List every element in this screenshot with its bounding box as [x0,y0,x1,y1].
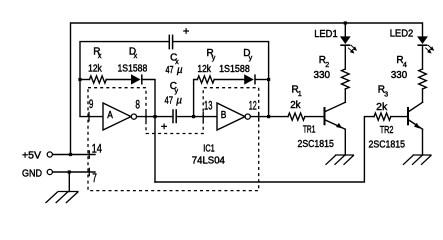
svg-text:IC1: IC1 [203,143,215,154]
svg-text:B: B [221,110,227,121]
svg-text:µ: µ [176,96,182,107]
svg-text:1S1588: 1S1588 [219,64,250,75]
svg-text:2k: 2k [290,100,301,111]
svg-text:47: 47 [166,65,174,76]
svg-text:x: x [134,51,138,60]
svg-text:12: 12 [249,100,257,112]
svg-text:TR1: TR1 [303,125,316,136]
svg-text:+5V: +5V [22,151,41,162]
svg-text:2SC1815: 2SC1815 [298,139,335,150]
svg-text:12k: 12k [197,64,211,75]
svg-text:12k: 12k [88,63,103,74]
svg-text:y: y [249,53,253,62]
svg-text:14: 14 [92,143,103,155]
svg-text:LED2: LED2 [390,28,414,39]
svg-text:47: 47 [165,96,174,107]
svg-text:330: 330 [391,70,408,81]
svg-text:2k: 2k [376,102,388,113]
svg-text:1S1588: 1S1588 [118,63,148,74]
svg-text:4: 4 [403,60,407,69]
svg-text:7: 7 [92,173,97,185]
svg-text:2: 2 [325,60,329,69]
svg-text:2SC1815: 2SC1815 [369,140,406,151]
svg-text:TR2: TR2 [380,125,394,136]
svg-text:x: x [98,51,102,60]
svg-text:330: 330 [314,70,331,81]
svg-text:y: y [212,53,216,62]
svg-text:3: 3 [384,90,388,99]
svg-text:GND: GND [22,168,42,179]
svg-text:LED1: LED1 [314,29,338,40]
svg-text:74LS04: 74LS04 [192,155,226,166]
svg-text:13: 13 [204,100,212,112]
svg-text:A: A [107,110,113,121]
svg-text:y: y [175,86,179,95]
svg-text:1: 1 [298,89,302,98]
svg-text:9: 9 [89,99,94,111]
svg-text:µ: µ [177,65,183,76]
svg-text:8: 8 [135,99,140,111]
